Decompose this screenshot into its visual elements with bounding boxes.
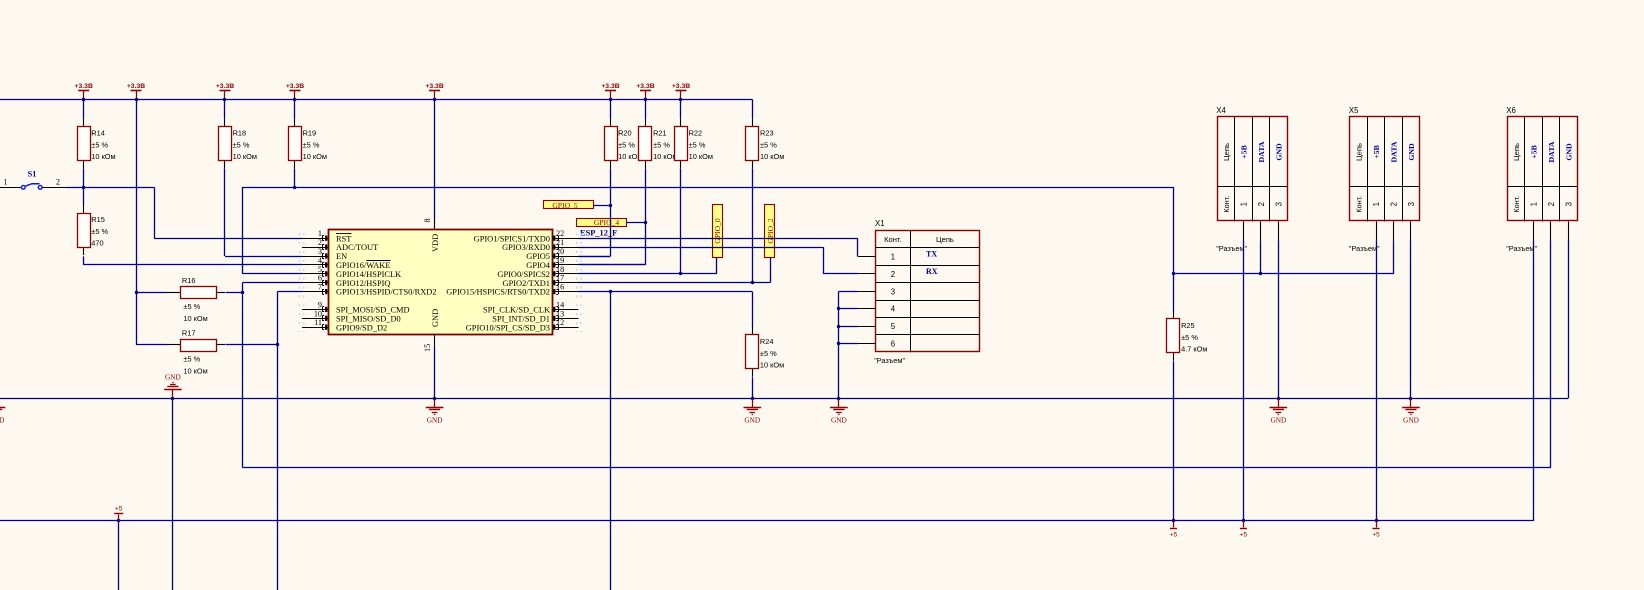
svg-text:DATA: DATA	[1257, 141, 1266, 162]
wire R25 to +5 line	[1173, 361, 1175, 521]
junction on +3.3V rail	[433, 98, 436, 101]
svg-text:GND: GND	[165, 373, 181, 382]
svg-text:R24: R24	[760, 337, 774, 346]
wire +3.3V to VDD pin 8	[434, 99, 436, 217]
svg-text:±5 %: ±5 %	[618, 140, 635, 149]
svg-text:GPIO16/WAKE: GPIO16/WAKE	[336, 261, 390, 270]
resistor R25	[1167, 311, 1208, 361]
svg-text:10 кОм: 10 кОм	[183, 367, 207, 376]
svg-text:+3.3В: +3.3В	[425, 83, 443, 90]
wire ground rail	[0, 398, 1568, 400]
svg-text:TX: TX	[926, 250, 937, 259]
svg-text:GPIO12/HSPIQ: GPIO12/HSPIQ	[336, 279, 390, 288]
wire +3.3V top rail	[0, 99, 752, 101]
wire R24 to ground rail	[752, 377, 754, 398]
svg-text:±5 %: ±5 %	[760, 140, 777, 149]
wire GPIO4 pin segment	[579, 264, 646, 266]
svg-text:Цепь: Цепь	[1512, 143, 1521, 161]
svg-text:2: 2	[1547, 202, 1556, 206]
wire rail branch down off-page	[172, 398, 174, 590]
overline RST	[336, 233, 352, 235]
svg-text:Конт.: Конт.	[1512, 196, 1521, 213]
svg-text:”Разъем”: ”Разъем”	[1349, 244, 1380, 253]
wire R16 right to GPIO12 drop	[226, 292, 243, 294]
wire GPIO_5 port to R20 net	[593, 205, 610, 207]
svg-text:1: 1	[1239, 202, 1248, 206]
wire R15 to GPIO16 row	[83, 256, 85, 265]
svg-text:±5 %: ±5 %	[233, 140, 250, 149]
svg-text:SPI_CLK/SD_CLK: SPI_CLK/SD_CLK	[483, 306, 550, 315]
svg-text:ESP_12_F: ESP_12_F	[580, 228, 617, 237]
svg-text:21: 21	[556, 238, 564, 247]
port GPIO_5	[544, 201, 594, 209]
svg-text:+5: +5	[1240, 532, 1248, 539]
svg-text:DATA: DATA	[1547, 141, 1556, 162]
svg-text:RST: RST	[336, 234, 351, 243]
svg-text:4: 4	[318, 256, 322, 265]
svg-text:±5 %: ±5 %	[183, 355, 200, 364]
svg-text:GND: GND	[431, 309, 440, 327]
svg-text:GPIO4: GPIO4	[526, 261, 551, 270]
svg-text:5: 5	[891, 322, 896, 331]
pin 9 SPI_MOSI/SD_CMD	[302, 300, 410, 314]
resistor R20	[605, 118, 643, 168]
wire GND pin 15 to rail	[434, 347, 436, 398]
junction R21/GPIO_4	[644, 221, 647, 224]
junction on +3.3V rail	[644, 98, 647, 101]
svg-text:GPIO_5: GPIO_5	[552, 201, 578, 210]
pin 15 GND stub	[434, 335, 436, 347]
wire GPIO15 branch down off-page	[610, 292, 612, 590]
pin 7 GPIO13/HSPID/CTS0/RXD2	[302, 283, 437, 297]
svg-text:2: 2	[318, 238, 322, 247]
svg-text:Конт.: Конт.	[1355, 196, 1364, 213]
svg-text:1: 1	[1372, 202, 1381, 206]
+3.3V power port 1	[75, 83, 93, 99]
pin 21 GPIO3/RXD0	[502, 238, 578, 252]
ground X4	[1270, 397, 1288, 425]
svg-text:±5 %: ±5 %	[91, 227, 108, 236]
svg-text:17: 17	[556, 274, 564, 283]
svg-text:Цепь: Цепь	[1355, 143, 1364, 161]
svg-text:±5 %: ±5 %	[760, 349, 777, 358]
connector X5	[1349, 106, 1420, 253]
svg-text:±5 %: ±5 %	[303, 140, 320, 149]
wire +3.3V to R22	[680, 99, 682, 118]
svg-text:R21: R21	[653, 128, 667, 137]
svg-text:GPIO3/RXD0: GPIO3/RXD0	[502, 243, 550, 252]
svg-text:470: 470	[91, 239, 103, 248]
+5 power port under X4	[1240, 519, 1248, 539]
wire R17 left	[136, 344, 166, 346]
+3.3V power port 3	[216, 83, 234, 99]
svg-text:10 кОм: 10 кОм	[303, 152, 327, 161]
junction on +3.3V rail	[609, 98, 612, 101]
svg-text:1: 1	[1529, 202, 1538, 206]
pin 16 GPIO15/HSPICS/RTS0/TXD2	[446, 283, 578, 297]
wire S1 to R14/R15 node	[67, 187, 154, 189]
svg-text:+3.3В: +3.3В	[127, 83, 145, 90]
wire R16 left	[136, 292, 166, 294]
svg-text:+3.3В: +3.3В	[672, 83, 690, 90]
pin 3 EN	[302, 247, 347, 261]
wire GPIO15 to R24	[579, 291, 753, 293]
wire +3.3V to R21	[645, 99, 647, 118]
svg-text:GPIO_0: GPIO_0	[713, 218, 722, 244]
connector X4	[1216, 106, 1287, 253]
svg-text:1: 1	[4, 178, 8, 187]
wire R18 to EN pin	[224, 169, 226, 257]
+5 power port under X5	[1372, 519, 1380, 539]
pin 8 VDD stub	[434, 218, 436, 230]
svg-text:SPI_MISO/SD_D0: SPI_MISO/SD_D0	[336, 314, 401, 323]
junction on +3.3V rail	[82, 98, 85, 101]
pin 12 GPIO10/SPI_CS/SD_D3	[466, 318, 579, 332]
resistor R17	[166, 328, 225, 375]
svg-text:5: 5	[318, 265, 322, 274]
svg-text:GPIO13/HSPID/CTS0/RXD2: GPIO13/HSPID/CTS0/RXD2	[336, 288, 437, 297]
svg-text:”Разъем”: ”Разъем”	[1216, 244, 1247, 253]
svg-text:X4: X4	[1216, 106, 1226, 115]
svg-text:Цепь: Цепь	[936, 235, 954, 244]
pin 4 GPIO16/WAKE	[302, 256, 390, 270]
port GPIO_0	[713, 205, 723, 258]
svg-text:+3.3В: +3.3В	[75, 83, 93, 90]
svg-text:GPIO10/SPI_CS/SD_D3: GPIO10/SPI_CS/SD_D3	[466, 323, 550, 332]
svg-text:R16: R16	[182, 276, 196, 285]
wire R17 right to GPIO13 drop	[226, 344, 278, 346]
wire GPIO12 to X6 DATA	[242, 467, 1550, 469]
wire TXD0 to X1	[579, 238, 858, 240]
svg-text:14: 14	[556, 300, 564, 309]
svg-text:VDD: VDD	[431, 234, 440, 252]
wire GPIO12 pin drop	[242, 282, 302, 284]
pin 17 GPIO2/TXD1	[503, 274, 579, 288]
junction X1 ground chain	[837, 342, 840, 345]
ground X1	[830, 397, 848, 425]
svg-text:R15: R15	[91, 215, 105, 224]
connector X6	[1506, 106, 1577, 253]
pin 5 GPIO14/HSPICLK	[302, 265, 401, 279]
svg-text:X5: X5	[1349, 106, 1359, 115]
resistor R14	[78, 118, 116, 168]
wire node to RST pin	[154, 187, 156, 238]
svg-text:+5: +5	[1170, 532, 1178, 539]
svg-text:3: 3	[1407, 202, 1416, 206]
junction DATA/R25	[1172, 272, 1175, 275]
svg-text:GND: GND	[0, 415, 4, 424]
wire GPIO0 to port GPIO_0	[579, 273, 718, 275]
svg-text:S1: S1	[28, 170, 37, 179]
wire X4 +5V pin	[1243, 240, 1245, 521]
pin 1 RST	[302, 229, 351, 243]
junction R16 left	[135, 291, 138, 294]
port GPIO_4	[577, 219, 627, 227]
svg-text:R19: R19	[303, 128, 317, 137]
svg-text:R17: R17	[182, 328, 196, 337]
svg-text:R20: R20	[618, 128, 632, 137]
svg-text:GND: GND	[744, 415, 760, 424]
svg-text:8: 8	[423, 218, 432, 222]
svg-text:10 кОм: 10 кОм	[183, 314, 207, 323]
svg-text:3: 3	[318, 247, 322, 256]
wire R23 to GPIO2 net	[752, 169, 754, 283]
svg-text:ADC/TOUT: ADC/TOUT	[336, 243, 378, 252]
svg-text:±5 %: ±5 %	[91, 140, 108, 149]
wire GPIO2 to port GPIO_2	[579, 282, 771, 284]
svg-text:GND: GND	[1403, 415, 1419, 424]
wire R22 to GPIO0 net	[680, 169, 682, 274]
svg-text:3: 3	[1274, 202, 1283, 206]
svg-text:10 кОм: 10 кОм	[233, 152, 257, 161]
IC U1 ESP_12_F body	[329, 230, 553, 335]
wire RXD0 to X1	[579, 247, 824, 249]
+3.3V power port 2	[127, 83, 145, 99]
svg-text:GPIO15/HSPICS/RTS0/TXD2: GPIO15/HSPICS/RTS0/TXD2	[446, 288, 550, 297]
svg-text:+5В: +5В	[1372, 145, 1381, 159]
wire X4 GND pin	[1278, 240, 1280, 398]
+3.3V power port 8	[672, 83, 690, 99]
svg-text:R23: R23	[760, 128, 774, 137]
resistor R15	[78, 205, 109, 255]
svg-text:6: 6	[891, 340, 895, 349]
ground R24	[744, 397, 762, 425]
connector X1 table	[874, 219, 980, 365]
svg-text:GND: GND	[1274, 143, 1283, 161]
svg-text:3: 3	[891, 287, 895, 296]
svg-text:18: 18	[556, 265, 564, 274]
svg-text:10 кОм: 10 кОм	[760, 152, 784, 161]
svg-text:4.7 кОм: 4.7 кОм	[1181, 344, 1207, 353]
wire GPIO_4 port to R21 net	[627, 222, 646, 224]
pin 10 SPI_MISO/SD_D0	[302, 309, 401, 323]
svg-text:+3.3В: +3.3В	[601, 83, 619, 90]
ground IC pin 15	[426, 397, 444, 425]
svg-text:10 кОм: 10 кОм	[91, 152, 115, 161]
pin 20 GPIO5	[526, 247, 578, 261]
ground X5	[1402, 397, 1420, 425]
svg-text:R25: R25	[1181, 321, 1195, 330]
svg-text:GND: GND	[1270, 415, 1286, 424]
wire X1 pins 3-6 to ground	[839, 291, 858, 293]
+3.3V power port 4	[286, 83, 304, 99]
svg-text:22: 22	[556, 229, 564, 238]
pin 14 SPI_CLK/SD_CLK	[483, 300, 579, 314]
wire DATA line to X4/X5	[1174, 273, 1394, 275]
svg-text:2: 2	[56, 178, 60, 187]
svg-text:SPI_INT/SD_D1: SPI_INT/SD_D1	[492, 314, 550, 323]
junction R23/GPIO2 net	[751, 281, 754, 284]
svg-text:4: 4	[891, 305, 896, 314]
svg-text:+3.3В: +3.3В	[636, 83, 654, 90]
pin 11 GPIO9/SD_D2	[302, 318, 387, 332]
svg-text:1: 1	[891, 253, 895, 262]
overline WAKE	[366, 260, 390, 262]
resistor R21	[639, 118, 678, 168]
svg-text:3: 3	[1564, 202, 1573, 206]
svg-text:Конт.: Конт.	[884, 235, 902, 244]
svg-text:GND: GND	[831, 415, 847, 424]
svg-text:GPIO9/SD_D2: GPIO9/SD_D2	[336, 323, 387, 332]
wire R14 to node	[83, 169, 85, 206]
svg-text:10 кОм: 10 кОм	[760, 360, 784, 369]
svg-text:15: 15	[423, 344, 432, 352]
svg-text:1: 1	[318, 229, 322, 238]
svg-text:GND: GND	[427, 415, 443, 424]
wire +5V branch down off-page	[118, 521, 120, 590]
pin 18 GPIO0/SPICS2	[497, 265, 578, 279]
svg-text:GND: GND	[1564, 143, 1573, 161]
junction on +3.3V rail	[135, 98, 138, 101]
pin 22 GPIO1/SPICS1/TXD0	[474, 229, 579, 243]
svg-text:19: 19	[556, 256, 564, 265]
svg-text:X1: X1	[875, 219, 885, 228]
port GPIO_2	[765, 205, 775, 258]
svg-text:+5В: +5В	[1239, 145, 1248, 159]
svg-text:±5 %: ±5 %	[1181, 333, 1198, 342]
resistor R23	[746, 118, 785, 168]
wire X5 +5V pin	[1376, 240, 1378, 521]
svg-text:Цепь: Цепь	[1222, 143, 1231, 161]
pin 6 GPIO12/HSPIQ	[302, 274, 390, 288]
svg-text:GPIO_2: GPIO_2	[766, 218, 775, 244]
svg-text:Конт.: Конт.	[1222, 196, 1231, 213]
wire R19 to DATA line	[294, 169, 296, 188]
svg-text:2: 2	[1389, 202, 1398, 206]
svg-text:11: 11	[314, 318, 322, 327]
svg-text:GND: GND	[1407, 143, 1416, 161]
wire +3.3V drop to R16/R17	[136, 99, 138, 292]
junction X1 ground chain	[837, 307, 840, 310]
svg-text:9: 9	[318, 300, 322, 309]
pin end markers	[299, 233, 301, 332]
svg-text:GPIO5: GPIO5	[526, 252, 550, 261]
wire +5V line	[0, 520, 1533, 522]
resistor R22	[675, 118, 713, 168]
switch S1	[0, 170, 67, 190]
svg-text:X6: X6	[1506, 106, 1516, 115]
wire upper DATA line	[242, 187, 1173, 189]
junction on +3.3V rail	[223, 98, 226, 101]
svg-text:±5 %: ±5 %	[653, 140, 670, 149]
svg-text:+3.3В: +3.3В	[286, 83, 304, 90]
pin 19 GPIO4	[526, 256, 578, 270]
svg-text:GPIO2/TXD1: GPIO2/TXD1	[503, 279, 550, 288]
+3.3V power port 7	[636, 83, 654, 99]
junction R17/GPIO13 net	[276, 343, 279, 346]
junction R16/GPIO12 net	[241, 291, 244, 294]
svg-text:GPIO0/SPICS2: GPIO0/SPICS2	[497, 270, 550, 279]
junction R20/GPIO_5	[609, 204, 612, 207]
svg-text:”Разъем”: ”Разъем”	[874, 356, 905, 365]
junction R22/GPIO0 net	[679, 272, 682, 275]
svg-text:13: 13	[556, 309, 564, 318]
svg-text:GPIO_4: GPIO_4	[594, 218, 620, 227]
+5 power port under R25	[1170, 519, 1178, 539]
junction X1 ground chain	[837, 325, 840, 328]
wire X4 DATA pin	[1260, 240, 1262, 273]
ground at left edge	[0, 398, 5, 424]
svg-text:+5В: +5В	[1529, 145, 1538, 159]
svg-text:GPIO1/SPICS1/TXD0: GPIO1/SPICS1/TXD0	[474, 234, 550, 243]
svg-text:16: 16	[556, 283, 564, 292]
wire R21 to GPIO4 pin	[645, 169, 647, 265]
svg-text:12: 12	[556, 318, 564, 327]
junction on +3.3V rail	[679, 98, 682, 101]
X1 pin stubs	[858, 257, 876, 344]
junction X4 DATA	[1259, 272, 1262, 275]
svg-text:7: 7	[318, 283, 322, 292]
+3.3V power port 6	[601, 83, 619, 99]
pin 13 SPI_INT/SD_D1	[492, 309, 578, 323]
junction R19/DATA upper line	[293, 186, 296, 189]
svg-text:”Разъем”: ”Разъем”	[1506, 244, 1537, 253]
+3.3V power port 5	[425, 83, 443, 99]
junction node S1/R14/R15	[82, 186, 85, 189]
svg-text:±5 %: ±5 %	[689, 140, 706, 149]
wire R20 to GPIO5 pin	[610, 169, 612, 257]
wire +3.3V to R20	[610, 99, 612, 118]
wire DATA to R25	[1173, 274, 1175, 311]
svg-text:±5 %: ±5 %	[183, 302, 200, 311]
svg-text:20: 20	[556, 247, 564, 256]
junction on +3.3V rail	[293, 98, 296, 101]
svg-text:EN: EN	[336, 252, 347, 261]
svg-text:SPI_MOSI/SD_CMD: SPI_MOSI/SD_CMD	[336, 306, 410, 315]
wire +3.3V to R19	[294, 99, 296, 118]
wire +3.3V to R14	[83, 99, 85, 118]
junction GPIO15 branch	[609, 290, 612, 293]
wire X5 GND pin	[1410, 240, 1412, 398]
svg-text:6: 6	[318, 274, 322, 283]
svg-text:R14: R14	[91, 128, 105, 137]
ground port inverted	[164, 373, 182, 401]
svg-text:R18: R18	[233, 128, 247, 137]
wire +3.3V to R18	[224, 99, 226, 118]
resistor R19	[289, 118, 327, 168]
svg-text:R22: R22	[689, 128, 703, 137]
svg-text:2: 2	[1257, 202, 1266, 206]
pin 2 ADC/TOUT	[302, 238, 378, 252]
svg-text:DATA: DATA	[1389, 141, 1398, 162]
+5 power port on +5V line	[114, 506, 123, 523]
svg-text:10 кОм: 10 кОм	[653, 152, 677, 161]
svg-text:10 кОм: 10 кОм	[689, 152, 713, 161]
wire GPIO5 pin segment	[579, 256, 611, 258]
svg-text:2: 2	[891, 270, 895, 279]
resistor R24	[746, 327, 785, 377]
svg-text:RX: RX	[926, 267, 938, 276]
svg-text:+5: +5	[1372, 532, 1380, 539]
svg-text:GPIO14/HSPICLK: GPIO14/HSPICLK	[336, 270, 401, 279]
svg-text:+5: +5	[115, 506, 123, 513]
resistor R18	[219, 118, 257, 168]
wire GPIO14 pin riser	[242, 273, 302, 275]
svg-text:+3.3В: +3.3В	[216, 83, 234, 90]
wire GPIO13 pin drop	[278, 291, 303, 293]
resistor R16	[166, 276, 225, 323]
svg-text:10: 10	[314, 309, 322, 318]
